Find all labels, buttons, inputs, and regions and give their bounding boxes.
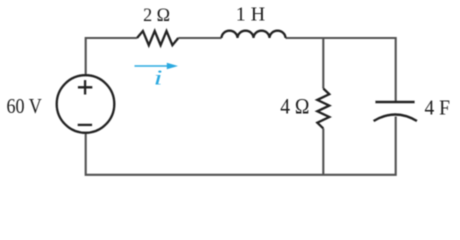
- svg-text:60 V: 60 V: [7, 94, 43, 118]
- svg-text:1 H: 1 H: [236, 5, 265, 26]
- svg-text:2 Ω: 2 Ω: [143, 5, 170, 26]
- svg-text:4 F: 4 F: [425, 95, 450, 119]
- svg-text:i: i: [154, 65, 163, 89]
- svg-text:4 Ω: 4 Ω: [280, 94, 309, 118]
